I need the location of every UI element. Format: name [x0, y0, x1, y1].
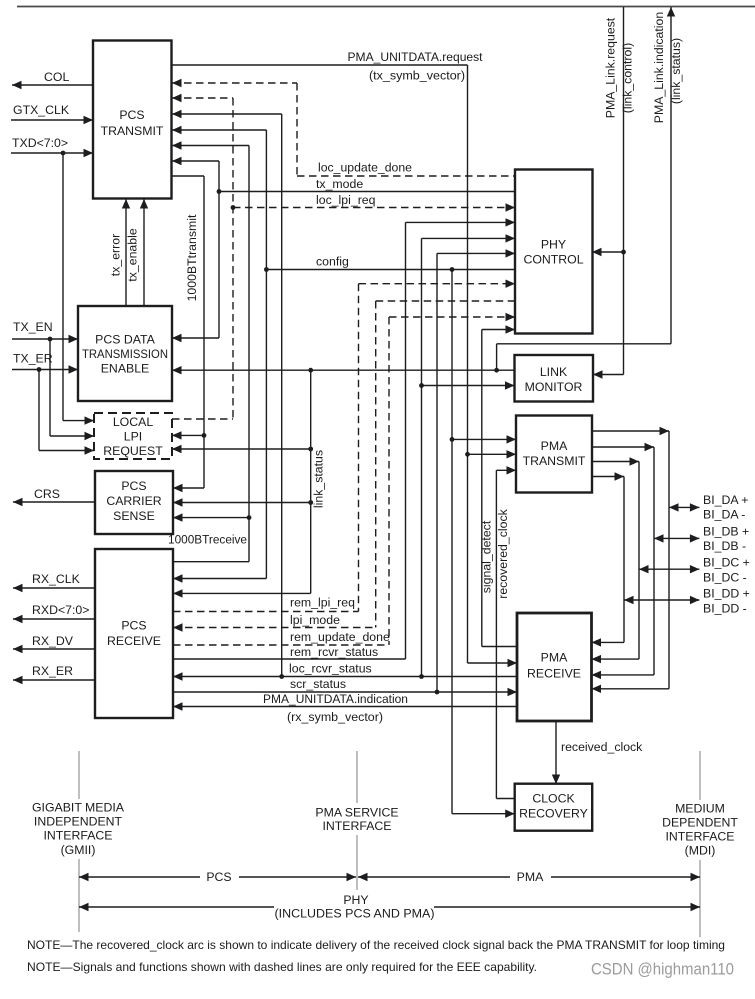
svg-text:PMA_UNITDATA.request: PMA_UNITDATA.request [348, 50, 484, 64]
svg-text:BI_DB -: BI_DB - [703, 539, 746, 553]
svg-text:BI_DC +: BI_DC + [703, 556, 750, 570]
wire BI_DD pair [592, 472, 750, 646]
label GMII [30, 799, 128, 859]
MDI boundary line [699, 751, 701, 937]
svg-text:PCS: PCS [119, 108, 144, 122]
svg-text:PCS: PCS [206, 870, 231, 884]
svg-text:PHY: PHY [343, 893, 368, 907]
svg-text:loc_rcvr_status: loc_rcvr_status [289, 662, 372, 676]
svg-text:PCS: PCS [121, 479, 146, 493]
svg-text:BI_DD +: BI_DD + [703, 587, 750, 601]
svg-text:TRANSMIT: TRANSMIT [523, 454, 586, 468]
svg-text:1000BTtransmit: 1000BTtransmit [185, 214, 199, 301]
label MDI [660, 800, 744, 860]
svg-text:GIGABIT MEDIA: GIGABIT MEDIA [32, 801, 125, 815]
svg-text:INTERFACE: INTERFACE [43, 829, 112, 843]
wire loc_rcvr_status from PMA RECEIVE to PCS RECEIVE, PCS TRANSMIT, PHY CONTROL, LINK MONITOR [172, 110, 517, 681]
note 1 [27, 939, 725, 952]
svg-text:CLOCK: CLOCK [532, 792, 575, 806]
wire RX_DV output [13, 634, 95, 653]
svg-text:RECEIVE: RECEIVE [107, 634, 161, 648]
wire recovered_clock from CLOCK RECOVERY to PMA TRANSMIT [496, 466, 516, 798]
PMA extent double arrow [358, 869, 700, 884]
svg-text:INDEPENDENT: INDEPENDENT [34, 815, 123, 829]
svg-text:signal_detect: signal_detect [480, 520, 494, 593]
svg-text:PMA_UNITDATA.indication: PMA_UNITDATA.indication [263, 692, 408, 706]
wire COL output [12, 70, 93, 89]
wire RX_CLK output [13, 572, 95, 592]
svg-text:SENSE: SENSE [113, 509, 155, 523]
block LOCAL LPI REQUEST (dashed) [94, 413, 172, 459]
svg-text:loc_update_done: loc_update_done [318, 161, 412, 175]
svg-text:RXD<7:0>: RXD<7:0> [32, 603, 89, 617]
block PHY CONTROL [515, 170, 593, 334]
wire received_clock from PMA RECEIVE to CLOCK RECOVERY [552, 721, 643, 784]
svg-text:(rx_symb_vector): (rx_symb_vector) [287, 710, 383, 724]
svg-text:loc_lpi_req: loc_lpi_req [316, 193, 376, 207]
svg-text:(tx_symb_vector): (tx_symb_vector) [369, 69, 465, 83]
svg-text:DEPENDENT: DEPENDENT [662, 816, 738, 830]
svg-text:COL: COL [44, 70, 69, 84]
wire PMA_Link.request (link_control) to PHY CONTROL and LINK MONITOR [592, 7, 635, 379]
svg-text:tx_error: tx_error [109, 234, 123, 276]
svg-text:CONTROL: CONTROL [523, 253, 583, 267]
svg-text:INTERFACE: INTERFACE [322, 819, 391, 833]
svg-text:LPI: LPI [124, 430, 142, 444]
block PCS RECEIVE [95, 549, 173, 718]
svg-text:PMA_Link.indication: PMA_Link.indication [652, 12, 666, 124]
svg-text:TXD<7:0>: TXD<7:0> [12, 136, 68, 150]
svg-text:PMA: PMA [541, 651, 568, 665]
svg-text:rem_lpi_req: rem_lpi_req [290, 596, 355, 610]
svg-text:recovered_clock: recovered_clock [496, 508, 510, 598]
label PMA SERVICE INTERFACE [310, 803, 404, 835]
svg-text:TRANSMIT: TRANSMIT [101, 124, 164, 138]
svg-text:INTERFACE: INTERFACE [665, 830, 734, 844]
GMII boundary line [78, 751, 80, 932]
wire lpi_mode (dashed) from PHY CONTROL to PCS RECEIVE [173, 301, 515, 632]
wire RX_ER output [13, 664, 95, 684]
wire config PHY CONTROL to PCS TRANSMIT, PCS RECEIVE, PMA TRANSMIT, CLOCK RECOVERY [172, 126, 516, 818]
wire tx_mode PHY CONTROL to PCS TRANSMIT and PCS DATA TRANSMISSION ENABLE [172, 157, 515, 342]
block PMA RECEIVE [517, 613, 592, 721]
svg-text:(link_status): (link_status) [669, 38, 683, 104]
svg-text:(INCLUDES PCS AND PMA): (INCLUDES PCS AND PMA) [275, 907, 435, 921]
svg-text:lpi_mode: lpi_mode [290, 613, 340, 627]
block PCS TRANSMIT [93, 41, 172, 199]
wire loc_lpi_req (dashed) from LOCAL LPI REQUEST to PCS TRANSMIT and PHY CONTROL [172, 94, 515, 419]
svg-text:TX_ER: TX_ER [13, 352, 53, 366]
wire BI_DA pair [592, 427, 749, 693]
svg-text:GTX_CLK: GTX_CLK [13, 103, 70, 117]
svg-text:BI_DB +: BI_DB + [703, 525, 749, 539]
PCS extent double arrow [79, 869, 356, 884]
top interface rule [17, 6, 755, 8]
svg-text:NOTE—The recovered_clock arc i: NOTE—The recovered_clock arc is shown to… [27, 939, 725, 952]
svg-text:rem_update_done: rem_update_done [290, 630, 390, 644]
svg-text:REQUEST: REQUEST [103, 444, 163, 458]
svg-text:config: config [316, 255, 349, 269]
svg-text:TX_EN: TX_EN [13, 320, 53, 334]
svg-text:NOTE—Signals and functions sho: NOTE—Signals and functions shown with da… [27, 961, 537, 974]
note 2 [27, 961, 537, 974]
block LINK MONITOR [515, 355, 594, 402]
wire CRS output [13, 487, 95, 506]
svg-text:PMA: PMA [517, 870, 544, 884]
svg-text:tx_mode: tx_mode [316, 177, 363, 191]
watermark CSDN @highman110 [591, 960, 734, 979]
wire link_status from LINK MONITOR to PCS blocks and PMA_Link.indication [172, 7, 675, 598]
svg-text:PCS DATA: PCS DATA [95, 333, 155, 347]
PMA service interface boundary line [356, 751, 358, 890]
block PCS DATA TRANSMISSION ENABLE [78, 306, 172, 401]
svg-text:BI_DA -: BI_DA - [703, 508, 745, 522]
wire 1000BTtransmit PCS TRANSMIT to LOCAL LPI REQUEST and PCS CARRIER SENSE [172, 176, 207, 492]
svg-text:BI_DA +: BI_DA + [703, 493, 748, 507]
svg-text:RX_ER: RX_ER [32, 664, 73, 678]
svg-text:CRS: CRS [34, 487, 60, 501]
wire TX_ER input with branch to LOCAL LPI REQUEST [12, 352, 94, 455]
svg-text:tx_enable: tx_enable [126, 228, 140, 281]
svg-text:RECEIVE: RECEIVE [527, 667, 581, 681]
svg-text:scr_status: scr_status [290, 677, 346, 691]
svg-text:MONITOR: MONITOR [525, 380, 583, 394]
wire loc_update_done (dashed) PHY CONTROL to PCS TRANSMIT [172, 79, 515, 176]
wire tx_enable [126, 199, 149, 306]
wire rem_update_done (dashed) from PCS RECEIVE to PHY CONTROL [173, 313, 515, 645]
svg-text:LOCAL: LOCAL [113, 415, 153, 429]
svg-text:1000BTreceive: 1000BTreceive [168, 533, 247, 547]
svg-text:RECOVERY: RECOVERY [519, 807, 588, 821]
wire 1000BTreceive PCS RECEIVE to PCS CARRIER SENSE and PCS TRANSMIT [168, 141, 251, 561]
svg-text:MEDIUM: MEDIUM [675, 802, 725, 816]
wire rem_lpi_req (dashed) from PCS RECEIVE to PHY CONTROL [173, 280, 515, 612]
svg-text:TRANSMISSION: TRANSMISSION [82, 347, 168, 361]
wire PMA_UNITDATA.request (tx_symb_vector) to PMA TRANSMIT and PMA RECEIVE [172, 50, 518, 667]
svg-text:link_status: link_status [312, 450, 326, 508]
svg-text:BI_DD -: BI_DD - [703, 602, 747, 616]
svg-text:PHY: PHY [541, 238, 566, 252]
block PCS CARRIER SENSE [95, 471, 173, 534]
svg-text:BI_DC -: BI_DC - [703, 571, 747, 585]
wire TX_EN input with branch to LOCAL LPI REQUEST [12, 320, 94, 440]
PHY extent double arrow [79, 893, 700, 921]
wire TXD 7:0 input with branch to LOCAL LPI REQUEST [11, 136, 94, 425]
wire tx_error [109, 199, 131, 306]
svg-text:ENABLE: ENABLE [101, 362, 150, 376]
wire RXD 7:0 output [13, 603, 95, 623]
svg-text:PMA_Link.request: PMA_Link.request [604, 17, 618, 118]
svg-text:CSDN @highman110: CSDN @highman110 [591, 960, 734, 979]
svg-text:rem_rcvr_status: rem_rcvr_status [290, 645, 378, 659]
block CLOCK RECOVERY [515, 784, 593, 831]
svg-text:received_clock: received_clock [561, 740, 643, 754]
svg-text:RX_DV: RX_DV [32, 634, 74, 648]
wire BI_DC pair [592, 457, 750, 663]
label PMA_Link.indication (link_status) [652, 12, 683, 124]
wire BI_DB pair [592, 443, 750, 679]
svg-text:(GMII): (GMII) [61, 843, 96, 857]
svg-text:PMA: PMA [541, 439, 568, 453]
wire GTX_CLK input [11, 103, 93, 124]
svg-text:(MDI): (MDI) [685, 844, 716, 858]
svg-text:PCS: PCS [121, 619, 146, 633]
wire scr_status from PCS RECEIVE to PHY CONTROL and PMA RECEIVE [173, 249, 517, 696]
svg-text:LINK: LINK [540, 365, 568, 379]
wire rem_rcvr_status from PCS RECEIVE to PHY CONTROL [173, 218, 515, 659]
block PMA TRANSMIT [516, 416, 592, 493]
svg-text:(link_control): (link_control) [621, 43, 635, 113]
svg-text:PMA SERVICE: PMA SERVICE [315, 806, 398, 820]
wire PMA_UNITDATA.indication (rx_symb_vector) from PMA RECEIVE to PCS RECEIVE [173, 692, 517, 724]
svg-text:RX_CLK: RX_CLK [32, 572, 81, 586]
wire signal_detect from PMA RECEIVE to PHY CONTROL [480, 325, 518, 646]
svg-text:CARRIER: CARRIER [106, 494, 161, 508]
